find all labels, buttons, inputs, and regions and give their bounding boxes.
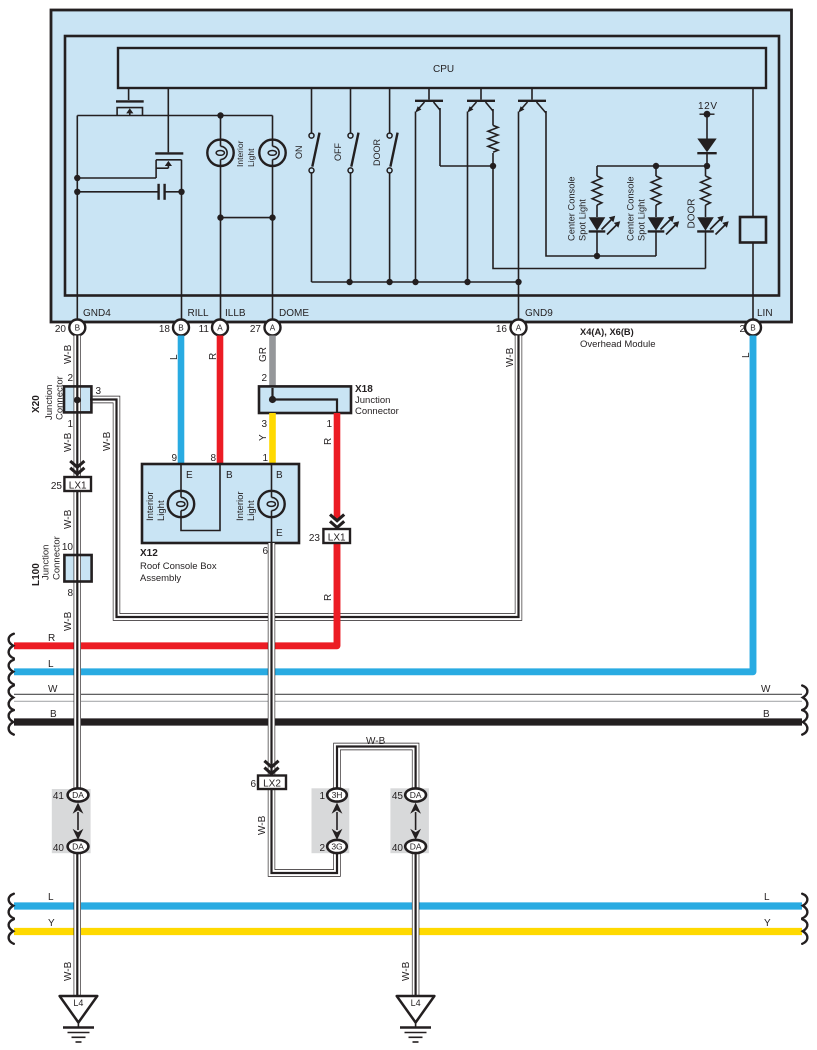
transistor Q5 — [518, 88, 546, 282]
svg-text:B: B — [276, 470, 283, 481]
wire Y: X18 pin 3 to X12 pin 1 — [258, 413, 273, 465]
pin 16 (A) GND9 — [496, 320, 527, 336]
brace marks right — [802, 686, 807, 944]
switch ON — [294, 88, 320, 282]
LED D2 center console spot light 1 — [567, 176, 621, 256]
LED D4 door — [687, 199, 729, 269]
svg-text:L4: L4 — [411, 998, 421, 1008]
wire W-B: DA 40 down to ground L4 — [63, 847, 77, 998]
transistor Q2 MOSFET lower — [155, 88, 183, 320]
svg-text:2: 2 — [319, 843, 325, 854]
wire W-B: 3H pin 1 up over to DA 45 — [337, 736, 416, 795]
connector pair DA 41/40 left — [53, 788, 89, 854]
wire L: RILL pin 18 to X12 pin 9 — [169, 336, 181, 466]
svg-text:27: 27 — [250, 324, 262, 335]
svg-text:Y: Y — [764, 918, 771, 929]
svg-text:Y: Y — [258, 434, 269, 441]
wire: Q5 collector to spot light LEDs return — [546, 111, 656, 259]
pin port name labels — [83, 308, 773, 319]
diode D1 — [697, 139, 716, 167]
svg-text:Light: Light — [156, 500, 167, 521]
svg-text:B: B — [750, 324, 756, 333]
svg-text:Assembly: Assembly — [140, 573, 181, 584]
wire: emitter bus to GND9 — [312, 279, 522, 320]
lamp: interior light bulb 1 (ILLB) — [207, 112, 233, 217]
svg-text:Y: Y — [48, 918, 55, 929]
svg-text:20: 20 — [55, 324, 67, 335]
capacitor C1 — [74, 184, 185, 200]
svg-text:Junction: Junction — [44, 385, 55, 420]
wire B bus — [14, 709, 802, 722]
svg-text:Center Console: Center Console — [567, 176, 577, 241]
svg-text:Light: Light — [246, 500, 257, 521]
svg-text:ILLB: ILLB — [225, 308, 246, 319]
svg-text:B: B — [178, 324, 184, 333]
label X4(A), X6(B) Overhead Module — [580, 327, 656, 350]
svg-text:Interior: Interior — [235, 491, 246, 521]
wire W-B: LX2 down around to 3G pin 2 — [272, 788, 338, 874]
splice chevron on X12 pin6 wire — [264, 761, 278, 774]
svg-text:18: 18 — [159, 324, 171, 335]
svg-text:Light: Light — [246, 148, 256, 167]
svg-text:W-B: W-B — [401, 961, 412, 981]
svg-text:L: L — [48, 892, 54, 903]
wire W-B: X20 pin 3 to GND9 pin 16 — [90, 336, 519, 618]
wire: LIN internal vertical — [752, 88, 754, 320]
splice chevron on R wire — [330, 515, 344, 530]
wire W-B: GND4 pin 20 down to DA 41 — [63, 336, 77, 796]
label X12 Roof Console Box Assembly — [140, 546, 268, 584]
connector DA left gray box — [52, 789, 91, 853]
svg-text:X18: X18 — [355, 384, 373, 395]
switch OFF — [333, 88, 359, 282]
svg-text:X20: X20 — [31, 395, 42, 413]
lamp: X12 interior light 2 — [235, 465, 285, 543]
wire R bus: LX1 23 down and across — [14, 543, 337, 646]
LIN transceiver block — [740, 217, 766, 243]
resistor R2 (spot light 1) — [592, 166, 602, 217]
wire R: ILLB pin 11 to X12 pin 8 — [208, 336, 220, 466]
svg-text:Connector: Connector — [55, 376, 66, 420]
label Interior Light (module) — [235, 140, 256, 167]
svg-text:DOOR: DOOR — [687, 199, 698, 229]
svg-text:3H: 3H — [332, 790, 343, 800]
svg-text:OFF: OFF — [333, 143, 343, 161]
svg-text:X4(A), X6(B): X4(A), X6(B) — [580, 327, 634, 337]
svg-text:DA: DA — [72, 790, 84, 800]
svg-text:W-B: W-B — [366, 736, 386, 747]
svg-text:Junction: Junction — [41, 545, 52, 580]
svg-text:40: 40 — [53, 843, 65, 854]
svg-text:LX1: LX1 — [328, 533, 346, 544]
svg-text:Spot Light: Spot Light — [578, 199, 588, 241]
svg-text:6: 6 — [250, 779, 256, 790]
wire: 12V node line — [597, 163, 710, 169]
svg-text:RILL: RILL — [188, 308, 210, 319]
svg-text:2: 2 — [261, 373, 267, 384]
svg-text:W-B: W-B — [63, 432, 74, 452]
svg-text:3: 3 — [261, 419, 267, 430]
svg-text:GND4: GND4 — [83, 308, 111, 319]
pin 11 (A) ILLB — [199, 320, 228, 336]
svg-text:L4: L4 — [73, 998, 83, 1008]
junction connector X18 — [259, 384, 399, 430]
wire L bus: LIN pin 2 down and across — [14, 336, 753, 672]
svg-text:LX2: LX2 — [263, 778, 281, 789]
svg-text:W: W — [48, 684, 58, 695]
pin 20 (B) GND4 — [55, 320, 85, 336]
svg-text:Overhead Module: Overhead Module — [580, 339, 656, 350]
junction connector X20 fill — [64, 386, 91, 412]
wire: Q3 collector to node — [440, 163, 496, 169]
svg-text:Interior: Interior — [235, 140, 245, 167]
ground L4 left — [60, 996, 98, 1042]
svg-text:GR: GR — [258, 347, 269, 362]
resistor R1 (Q4 collector) — [488, 125, 498, 166]
junction connector L100 border and labels — [31, 536, 92, 599]
svg-text:Spot Light: Spot Light — [637, 199, 647, 241]
transistor Q4 — [467, 88, 495, 282]
svg-text:R: R — [48, 633, 55, 644]
svg-text:LIN: LIN — [757, 308, 773, 319]
roof console box assembly X12 — [142, 464, 299, 543]
svg-text:B: B — [226, 470, 233, 481]
connector LX1 25 — [51, 477, 91, 492]
svg-text:45: 45 — [392, 791, 404, 802]
lamp: interior light bulb 2 (DOME) — [259, 116, 285, 218]
svg-text:Junction: Junction — [355, 395, 390, 406]
svg-text:Roof Console Box: Roof Console Box — [140, 561, 217, 572]
connector pair DA 45/40 right — [392, 788, 426, 854]
connector 3H/3G gray box — [312, 788, 350, 853]
svg-text:R: R — [323, 438, 334, 445]
svg-text:DA: DA — [410, 790, 422, 800]
wire W-B: DA 40 right down to ground L4 — [401, 847, 416, 997]
svg-text:E: E — [276, 528, 283, 539]
svg-text:B: B — [763, 709, 770, 720]
svg-text:41: 41 — [53, 791, 65, 802]
svg-text:1: 1 — [262, 453, 268, 464]
svg-text:W-B: W-B — [63, 344, 74, 364]
resistor R4 (door LED) — [701, 166, 711, 217]
svg-text:1: 1 — [326, 419, 332, 430]
svg-text:Center Console: Center Console — [626, 176, 636, 241]
svg-text:6: 6 — [262, 546, 268, 557]
svg-text:X12: X12 — [140, 548, 158, 559]
overhead module X4/X6 outer box — [51, 10, 792, 322]
pin 2 (B) LIN — [739, 320, 761, 336]
junction connector X20 border and labels — [31, 373, 102, 430]
wire: Q2 source to GND4 line — [74, 175, 156, 181]
svg-text:L: L — [169, 354, 180, 360]
overhead module inner box — [65, 36, 779, 296]
svg-text:Interior: Interior — [145, 491, 156, 521]
wire W bus — [14, 684, 802, 701]
svg-text:B: B — [50, 709, 57, 720]
pin 18 (B) RILL — [159, 320, 189, 336]
svg-text:W-B: W-B — [63, 611, 74, 631]
CPU U1 — [118, 48, 766, 88]
svg-text:CPU: CPU — [433, 64, 454, 75]
svg-text:3G: 3G — [331, 842, 342, 852]
svg-text:10: 10 — [62, 542, 74, 553]
junction connector L100 fill — [64, 555, 91, 582]
svg-text:W-B: W-B — [257, 815, 268, 835]
svg-text:LX1: LX1 — [69, 481, 87, 492]
wire Y bus lower — [14, 918, 802, 932]
svg-text:W-B: W-B — [102, 431, 113, 451]
svg-text:DA: DA — [410, 842, 422, 852]
LED D3 center console spot light 2 — [626, 176, 680, 256]
svg-text:W-B: W-B — [63, 961, 74, 981]
svg-text:R: R — [323, 594, 334, 601]
wire W-B: X12 pin 6 down to LX2 — [257, 543, 272, 835]
svg-text:25: 25 — [51, 481, 63, 492]
transistor Q1 MOSFET top — [116, 88, 144, 116]
connector LX2 6 — [250, 776, 286, 791]
wire GR: DOME pin 27 to X18 pin 2 — [258, 336, 273, 388]
svg-text:11: 11 — [199, 324, 210, 335]
connector LX1 23 — [309, 529, 350, 544]
connector DA right gray box — [390, 788, 429, 853]
svg-text:A: A — [516, 324, 522, 333]
svg-text:3: 3 — [96, 386, 102, 397]
splice chevron on GND4 wire — [70, 461, 84, 474]
svg-text:L: L — [741, 352, 752, 358]
svg-text:Connector: Connector — [355, 406, 399, 417]
pin 27 (A) DOME — [250, 320, 281, 336]
svg-text:12V: 12V — [698, 101, 717, 112]
svg-text:23: 23 — [309, 533, 321, 544]
svg-text:DOOR: DOOR — [372, 138, 382, 166]
wire: bulb bottoms bridge, down to pins ILLB / DOME — [217, 214, 275, 319]
svg-text:A: A — [270, 324, 276, 333]
svg-text:DOME: DOME — [279, 308, 309, 319]
svg-text:W-B: W-B — [505, 347, 516, 367]
svg-text:40: 40 — [392, 843, 404, 854]
svg-text:2: 2 — [67, 373, 73, 384]
svg-text:1: 1 — [67, 419, 73, 430]
svg-text:DA: DA — [72, 842, 84, 852]
lamp: X12 interior light 1 — [145, 465, 220, 531]
svg-text:E: E — [186, 470, 193, 481]
transistor Q3 — [415, 88, 443, 282]
svg-text:W: W — [761, 684, 771, 695]
resistor R3 (spot light 2) — [651, 166, 661, 217]
svg-text:W-B: W-B — [63, 509, 74, 529]
svg-text:9: 9 — [171, 453, 177, 464]
svg-text:R: R — [208, 353, 219, 360]
wire: GND4 internal vertical — [76, 116, 78, 320]
svg-text:B: B — [75, 324, 81, 333]
12V supply tap — [698, 101, 717, 139]
svg-text:ON: ON — [294, 146, 304, 160]
svg-text:GND9: GND9 — [525, 308, 553, 319]
wire R: X18 pin 1 down to LX1 23 — [323, 413, 337, 520]
svg-text:Connector: Connector — [52, 536, 63, 580]
wire: node down to DOOR LED return — [493, 166, 706, 269]
svg-text:L: L — [764, 892, 770, 903]
svg-text:8: 8 — [210, 453, 216, 464]
svg-text:L: L — [48, 659, 54, 670]
wire L bus lower — [14, 892, 802, 906]
svg-text:A: A — [217, 324, 223, 333]
ground L4 right — [397, 996, 435, 1042]
wire: MOSFET source-drain bus to bulbs — [77, 115, 272, 117]
svg-text:8: 8 — [67, 588, 73, 599]
connector pair 3H/3G — [319, 788, 346, 854]
svg-text:1: 1 — [319, 791, 325, 802]
svg-text:16: 16 — [496, 324, 508, 335]
switch DOOR — [372, 88, 398, 282]
brace marks left — [9, 634, 14, 944]
